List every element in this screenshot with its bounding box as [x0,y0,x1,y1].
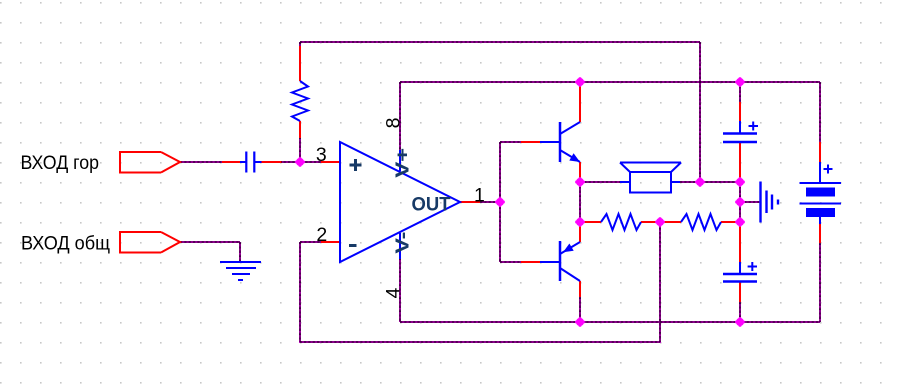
svg-text:1: 1 [474,184,485,206]
svg-text:3: 3 [316,144,327,166]
svg-text:2: 2 [316,224,327,246]
svg-text:OUT: OUT [412,194,451,216]
svg-text:8: 8 [382,118,404,129]
svg-text:V-: V- [392,232,413,254]
svg-text:V+: V+ [392,148,413,178]
svg-text:ВХОД гор: ВХОД гор [21,152,100,174]
svg-text:ВХОД общ: ВХОД общ [21,233,110,255]
svg-text:4: 4 [382,288,404,299]
